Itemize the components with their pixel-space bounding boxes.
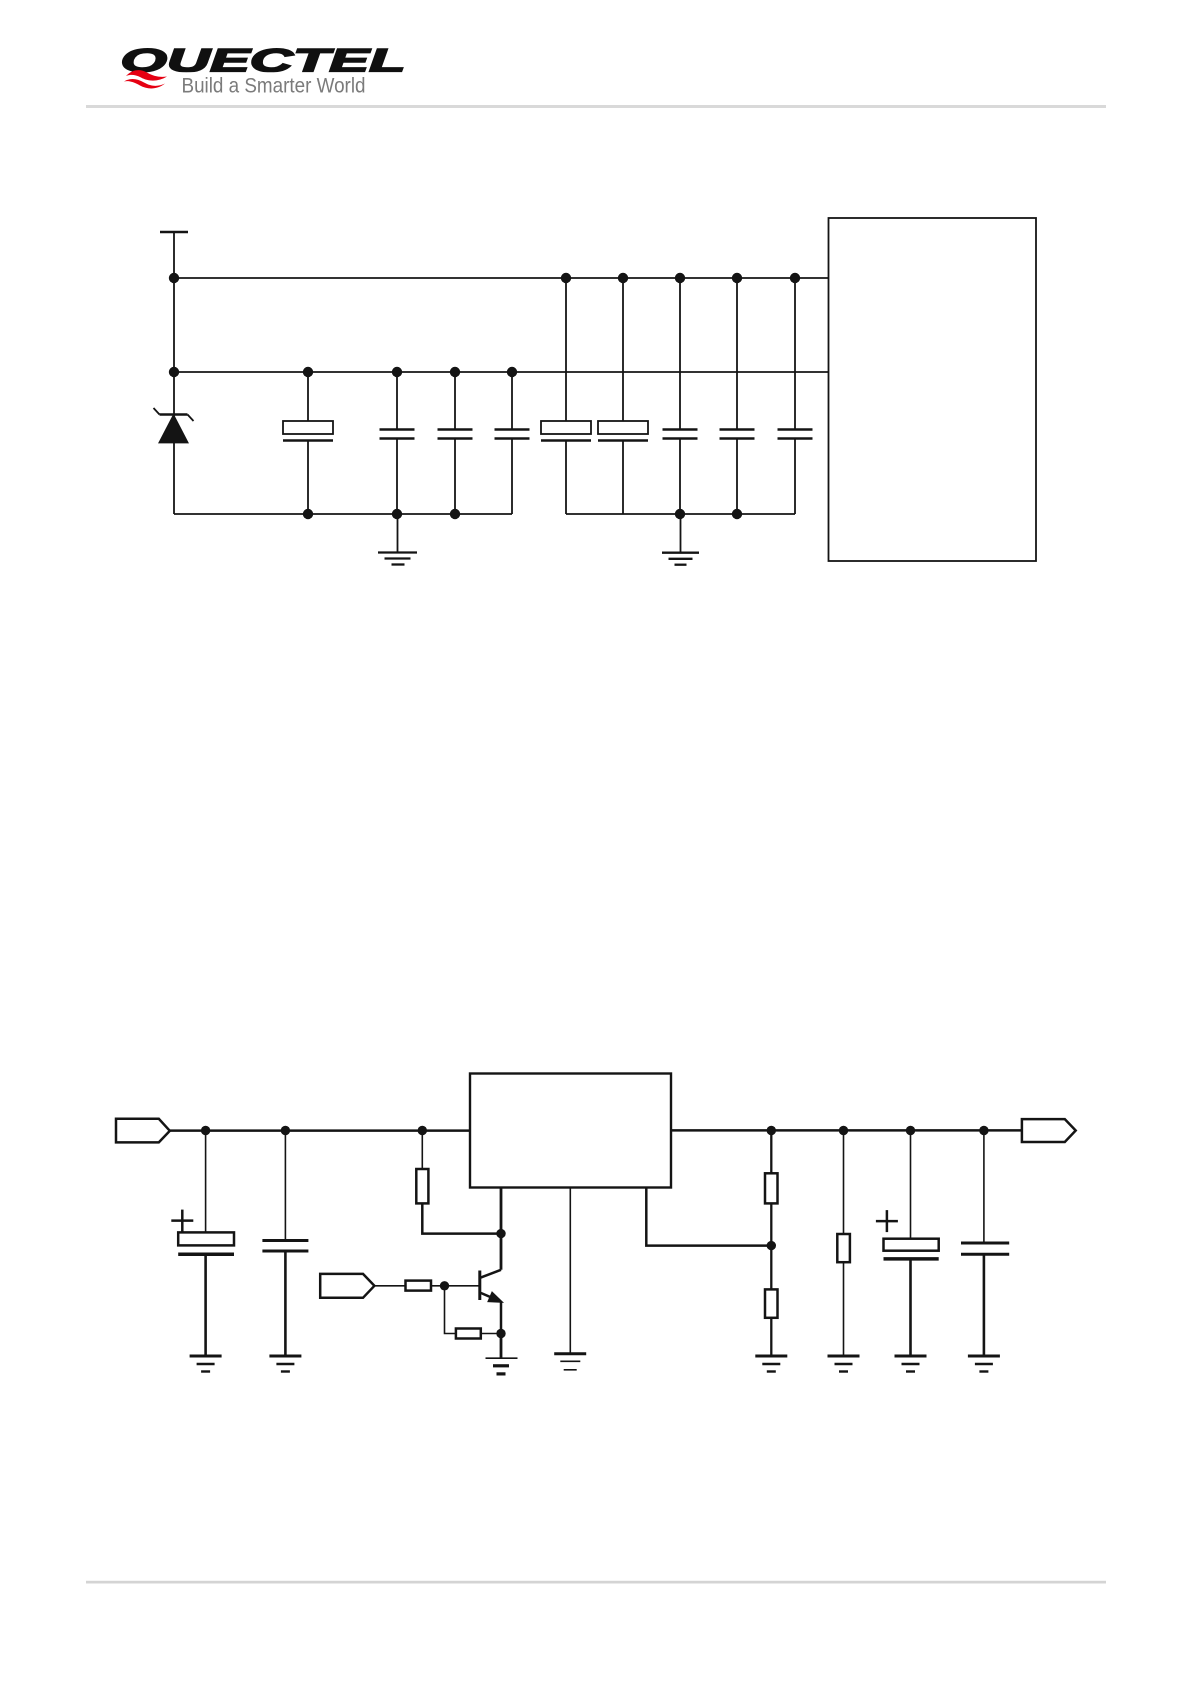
capacitor C13	[961, 1131, 1009, 1357]
wire output rail	[671, 1129, 1022, 1132]
junction base node	[440, 1281, 449, 1290]
wire left ground bus	[174, 513, 512, 515]
junction C2/ground bus	[392, 509, 402, 519]
junction C10/input rail	[201, 1126, 210, 1135]
wire R6 to base	[431, 1285, 479, 1287]
resistor R1	[416, 1131, 501, 1234]
wire right ground bus	[566, 513, 795, 515]
ground GND9	[895, 1356, 927, 1372]
capacitor C10 (electrolytic, polarized)	[171, 1131, 234, 1357]
capacitor C4	[495, 372, 530, 514]
capacitor C8	[720, 278, 755, 514]
junction C6/top rail	[618, 273, 628, 283]
junction C8/top rail	[732, 273, 742, 283]
wire base to R5	[445, 1286, 456, 1334]
ground GND7	[755, 1356, 787, 1372]
net flag output	[1022, 1119, 1076, 1142]
resistor R5 (base-emitter)	[456, 1329, 481, 1339]
wire U2 ground pin	[569, 1188, 571, 1354]
junction C7/top rail	[675, 273, 685, 283]
junction C2/second rail	[392, 367, 402, 377]
ground GND1	[378, 514, 417, 565]
junction R2/output rail	[767, 1126, 776, 1135]
wire flag to R6	[374, 1285, 405, 1287]
junction feedback node	[767, 1241, 776, 1250]
junction VBAT/second rail	[169, 367, 179, 377]
footer rule	[86, 1581, 1106, 1584]
transistor Q1	[480, 1270, 501, 1334]
capacitor C1 (bulk, polarized)	[283, 372, 333, 514]
logo red swoosh upper	[126, 70, 167, 80]
junction C4/second rail	[507, 367, 517, 377]
module U1 (block)	[829, 218, 1037, 561]
junction R1/input rail	[418, 1126, 427, 1135]
ground GND2	[662, 514, 699, 565]
junction R1/collector node	[496, 1229, 505, 1238]
junction C1/ground bus	[303, 509, 313, 519]
wire net VBAT top rail	[174, 277, 829, 279]
LDO regulator U2 (block)	[470, 1074, 671, 1188]
ground GND3	[190, 1356, 222, 1372]
wire input rail	[170, 1129, 470, 1132]
wire net VBAT second rail	[174, 371, 829, 373]
junction C7/ground bus	[675, 509, 685, 519]
svg-text:Build a Smarter World: Build a Smarter World	[182, 74, 366, 98]
junction C3/ground bus	[450, 509, 460, 519]
capacitor C7	[663, 278, 698, 514]
TVS diode D1	[154, 408, 194, 443]
junction C1/second rail	[303, 367, 313, 377]
junction R4/output rail	[839, 1126, 848, 1135]
junction C9/top rail	[790, 273, 800, 283]
ground GND6 (U2)	[554, 1354, 586, 1370]
capacitor C2	[380, 372, 415, 514]
resistor R4	[837, 1131, 850, 1357]
wire R5 to emitter node	[481, 1333, 501, 1335]
capacitor C11	[262, 1131, 308, 1357]
resistor R2 (divider top)	[765, 1131, 778, 1290]
ground GND10	[968, 1356, 1000, 1372]
resistor R3 (divider bottom)	[765, 1289, 778, 1356]
junction C8/ground bus	[732, 509, 742, 519]
net flag VBAT input	[116, 1119, 170, 1143]
capacitor C6 (polarized)	[598, 278, 648, 514]
wire U2 pin to collector	[500, 1188, 503, 1270]
logo red swoosh lower	[124, 79, 165, 89]
ground GND4	[269, 1356, 301, 1372]
wire VBAT vertical	[173, 232, 175, 514]
capacitor C12 (electrolytic, polarized)	[876, 1131, 939, 1357]
junction emitter node	[496, 1329, 505, 1338]
power flag VBAT	[160, 231, 188, 234]
capacitor C3	[438, 372, 473, 514]
net flag base drive input	[320, 1274, 374, 1298]
capacitor C9	[778, 278, 813, 514]
resistor R6 (base)	[406, 1281, 432, 1291]
junction C12/output rail	[906, 1126, 915, 1135]
junction C13/output rail	[979, 1126, 988, 1135]
junction VBAT/top rail	[169, 273, 179, 283]
header rule	[86, 105, 1106, 108]
ground GND8	[828, 1356, 860, 1372]
wire U2 feedback pin	[646, 1188, 771, 1246]
junction C3/second rail	[450, 367, 460, 377]
junction C5/top rail	[561, 273, 571, 283]
capacitor C5 (polarized)	[541, 278, 591, 514]
wire emitter to ground	[500, 1334, 503, 1359]
ground GND5 (Q1 emitter)	[486, 1358, 518, 1374]
junction C11/input rail	[281, 1126, 290, 1135]
